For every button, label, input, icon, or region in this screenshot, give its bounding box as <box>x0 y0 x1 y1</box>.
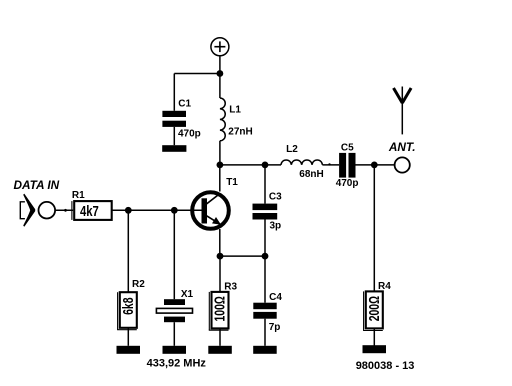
svg-text:433,92 MHz: 433,92 MHz <box>147 358 207 370</box>
svg-text:C5: C5 <box>341 142 354 153</box>
inductor L2 <box>281 160 322 165</box>
wire collector node to L2 <box>220 164 281 166</box>
ground under R4 <box>363 345 387 353</box>
svg-text:27nH: 27nH <box>228 126 252 137</box>
junction X1 node <box>171 207 178 214</box>
ground under X1 <box>163 346 187 354</box>
svg-text:T1: T1 <box>226 177 238 188</box>
svg-text:68nH: 68nH <box>299 169 323 180</box>
wire L2 to C5 <box>322 164 339 166</box>
power supply B+ <box>211 38 229 56</box>
junction collector node <box>217 162 224 169</box>
svg-text:DATA IN: DATA IN <box>14 178 60 192</box>
pin tick <box>328 163 330 165</box>
ground under R3 <box>208 346 232 354</box>
wire R3 from emitter node down <box>219 256 221 292</box>
ground under C4 <box>253 346 277 354</box>
svg-text:L1: L1 <box>229 105 241 116</box>
svg-text:7p: 7p <box>269 322 281 333</box>
capacitor C1 <box>162 74 186 146</box>
antenna jack circle <box>395 157 410 172</box>
svg-text:X1: X1 <box>181 289 194 300</box>
svg-text:200Ω: 200Ω <box>366 296 382 321</box>
svg-text:C4: C4 <box>269 292 282 303</box>
crystal X1 <box>156 210 192 345</box>
junction supply node <box>217 70 224 77</box>
svg-text:6k8: 6k8 <box>120 297 136 314</box>
wire collector <box>219 165 221 192</box>
wire R1 to base <box>112 209 202 211</box>
capacitor C4 <box>253 256 276 346</box>
junction emitter node <box>217 253 224 260</box>
antenna <box>394 87 412 135</box>
svg-text:980038 - 13: 980038 - 13 <box>356 360 415 372</box>
svg-text:R4: R4 <box>378 281 391 292</box>
inductor L1 <box>220 98 225 141</box>
capacitor C3 <box>253 165 278 256</box>
wire supply to C1 <box>174 73 220 75</box>
svg-text:C1: C1 <box>178 98 191 109</box>
capacitor C5 <box>339 153 355 178</box>
svg-text:R2: R2 <box>132 279 145 290</box>
svg-text:3p: 3p <box>270 221 282 232</box>
wire connector to R1 <box>56 209 73 211</box>
svg-text:470p: 470p <box>178 129 201 140</box>
wire R3 to ground <box>219 328 221 345</box>
junction C4 top node <box>262 253 269 260</box>
svg-text:ANT.: ANT. <box>388 140 416 154</box>
junction R2 node <box>125 207 132 214</box>
svg-text:L2: L2 <box>286 144 298 155</box>
junction R4 node <box>371 162 378 169</box>
wire supply down to L1 <box>219 56 221 98</box>
svg-text:R1: R1 <box>72 190 85 201</box>
wire R2 down <box>127 210 129 292</box>
svg-text:470p: 470p <box>336 178 359 189</box>
connector DATA IN <box>20 194 55 227</box>
wire R2 to ground <box>127 328 129 346</box>
wire emitter <box>219 229 221 256</box>
wire C5 to antenna jack <box>356 164 395 166</box>
svg-text:R3: R3 <box>224 281 237 292</box>
resistor R1 <box>72 201 112 220</box>
resistor R4 <box>363 291 383 330</box>
svg-text:C3: C3 <box>269 192 282 203</box>
resistor R3 <box>209 292 229 330</box>
wire L1 to collector node <box>219 141 221 165</box>
wire emitter row <box>220 255 265 257</box>
wire R4 to ground <box>373 328 375 345</box>
ground under C1 <box>162 145 186 152</box>
pin tick <box>64 209 67 212</box>
svg-text:4k7: 4k7 <box>80 203 99 220</box>
wire R4 from junction down <box>373 165 375 292</box>
svg-text:100Ω: 100Ω <box>212 296 228 321</box>
ground under R2 <box>117 346 141 354</box>
junction C3 top node <box>262 162 269 169</box>
transistor T1 <box>192 192 229 229</box>
resistor R2 <box>117 292 137 330</box>
